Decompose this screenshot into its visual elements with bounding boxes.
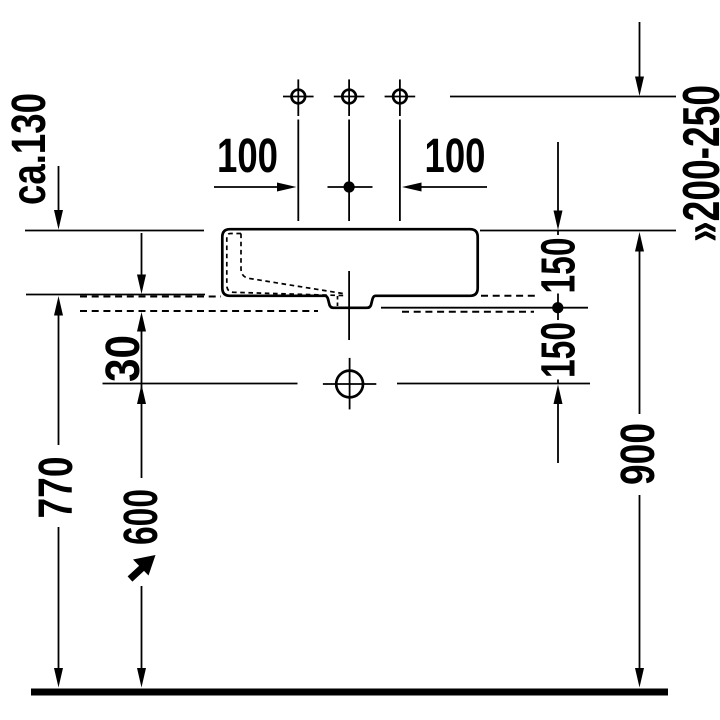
svg-text:ca.130: ca.130 (3, 93, 56, 205)
drain height line (381, 307, 588, 309)
150 chain line segment a (557, 231, 559, 235)
svg-text:600: 600 (115, 489, 168, 545)
arrow right 100 left (277, 183, 297, 192)
rim line right (480, 230, 676, 232)
svg-text:100: 100 (217, 130, 278, 183)
arrow down at rim for 150 (554, 211, 563, 231)
svg-text:30: 30 (97, 335, 150, 382)
svg-text:150: 150 (533, 322, 586, 378)
150 chain line segment b (557, 294, 559, 321)
svg-text:»200-250: »200-250 (673, 85, 720, 242)
dimension 100 right line (418, 186, 487, 188)
drain hidden edge (337, 296, 339, 306)
arrow down at floor for 600 (137, 668, 146, 688)
arrow up at countertop bottom for 30 (137, 312, 146, 332)
arrow down at floor for 900 (635, 668, 644, 688)
arrow left 100 right (402, 183, 422, 192)
extension line below center hole (348, 120, 350, 222)
dim 900 line upper part (639, 250, 641, 414)
dim 600 line lower part (141, 586, 143, 669)
outlet level line left (103, 383, 298, 385)
outlet level line right (397, 383, 590, 385)
150 lower extension (557, 402, 559, 463)
dimension 100 left line (214, 186, 280, 188)
rim line left (25, 230, 204, 232)
faucet height line (450, 96, 676, 98)
faucet hole circle left (283, 79, 314, 116)
svg-text:150: 150 (533, 238, 586, 294)
basin centerline through drain (348, 271, 350, 340)
faucet hole circle center (334, 79, 365, 116)
floor line (31, 689, 668, 696)
dim 900 upper arrow (635, 232, 644, 252)
faucet hole circle right (385, 79, 416, 116)
arrow down 200-250 (635, 77, 644, 97)
node dot center (328, 181, 373, 192)
dim 770 line upper part (58, 314, 60, 445)
dim 900 line lower part (639, 495, 641, 669)
svg-text:900: 900 (612, 423, 665, 485)
countertop top hidden line left (80, 296, 221, 298)
150 chain node dot (552, 302, 563, 313)
svg-text:770: 770 (30, 457, 83, 519)
extension line below left hole (297, 120, 299, 222)
dimension 200-250 drop line (639, 22, 641, 78)
underside reference line left (26, 294, 205, 296)
basin inner bowl hidden edge inner (241, 234, 346, 295)
dim 770 upper arrow (54, 296, 63, 316)
svg-text:100: 100 (425, 130, 486, 183)
arrow down at underside for 30 (137, 275, 146, 295)
countertop top hidden line right (481, 295, 535, 297)
washbasin outline (222, 229, 477, 308)
arrow up at outlet line for 150 (554, 385, 563, 405)
arrow down at rim for ca130 (54, 210, 63, 230)
waste outlet circle (323, 358, 376, 410)
countertop bottom hidden line right (402, 311, 534, 313)
150 chain line segment c (557, 380, 559, 384)
dim ca130 arrow line (58, 166, 60, 211)
adjustability arrow NE (130, 567, 143, 579)
dim 30 upper arrow line (141, 233, 143, 276)
countertop bottom hidden line left (80, 310, 318, 312)
arrow up at outlet line for 600 (137, 385, 146, 405)
dim 770 line lower part (58, 527, 60, 669)
extension line below right hole (399, 120, 401, 222)
basin inner bowl hidden edge outer (227, 234, 345, 296)
dim chain 150-150 upper extension (557, 142, 559, 212)
dim 30 lower extension (141, 330, 143, 478)
arrow down at floor for 770 (54, 668, 63, 688)
